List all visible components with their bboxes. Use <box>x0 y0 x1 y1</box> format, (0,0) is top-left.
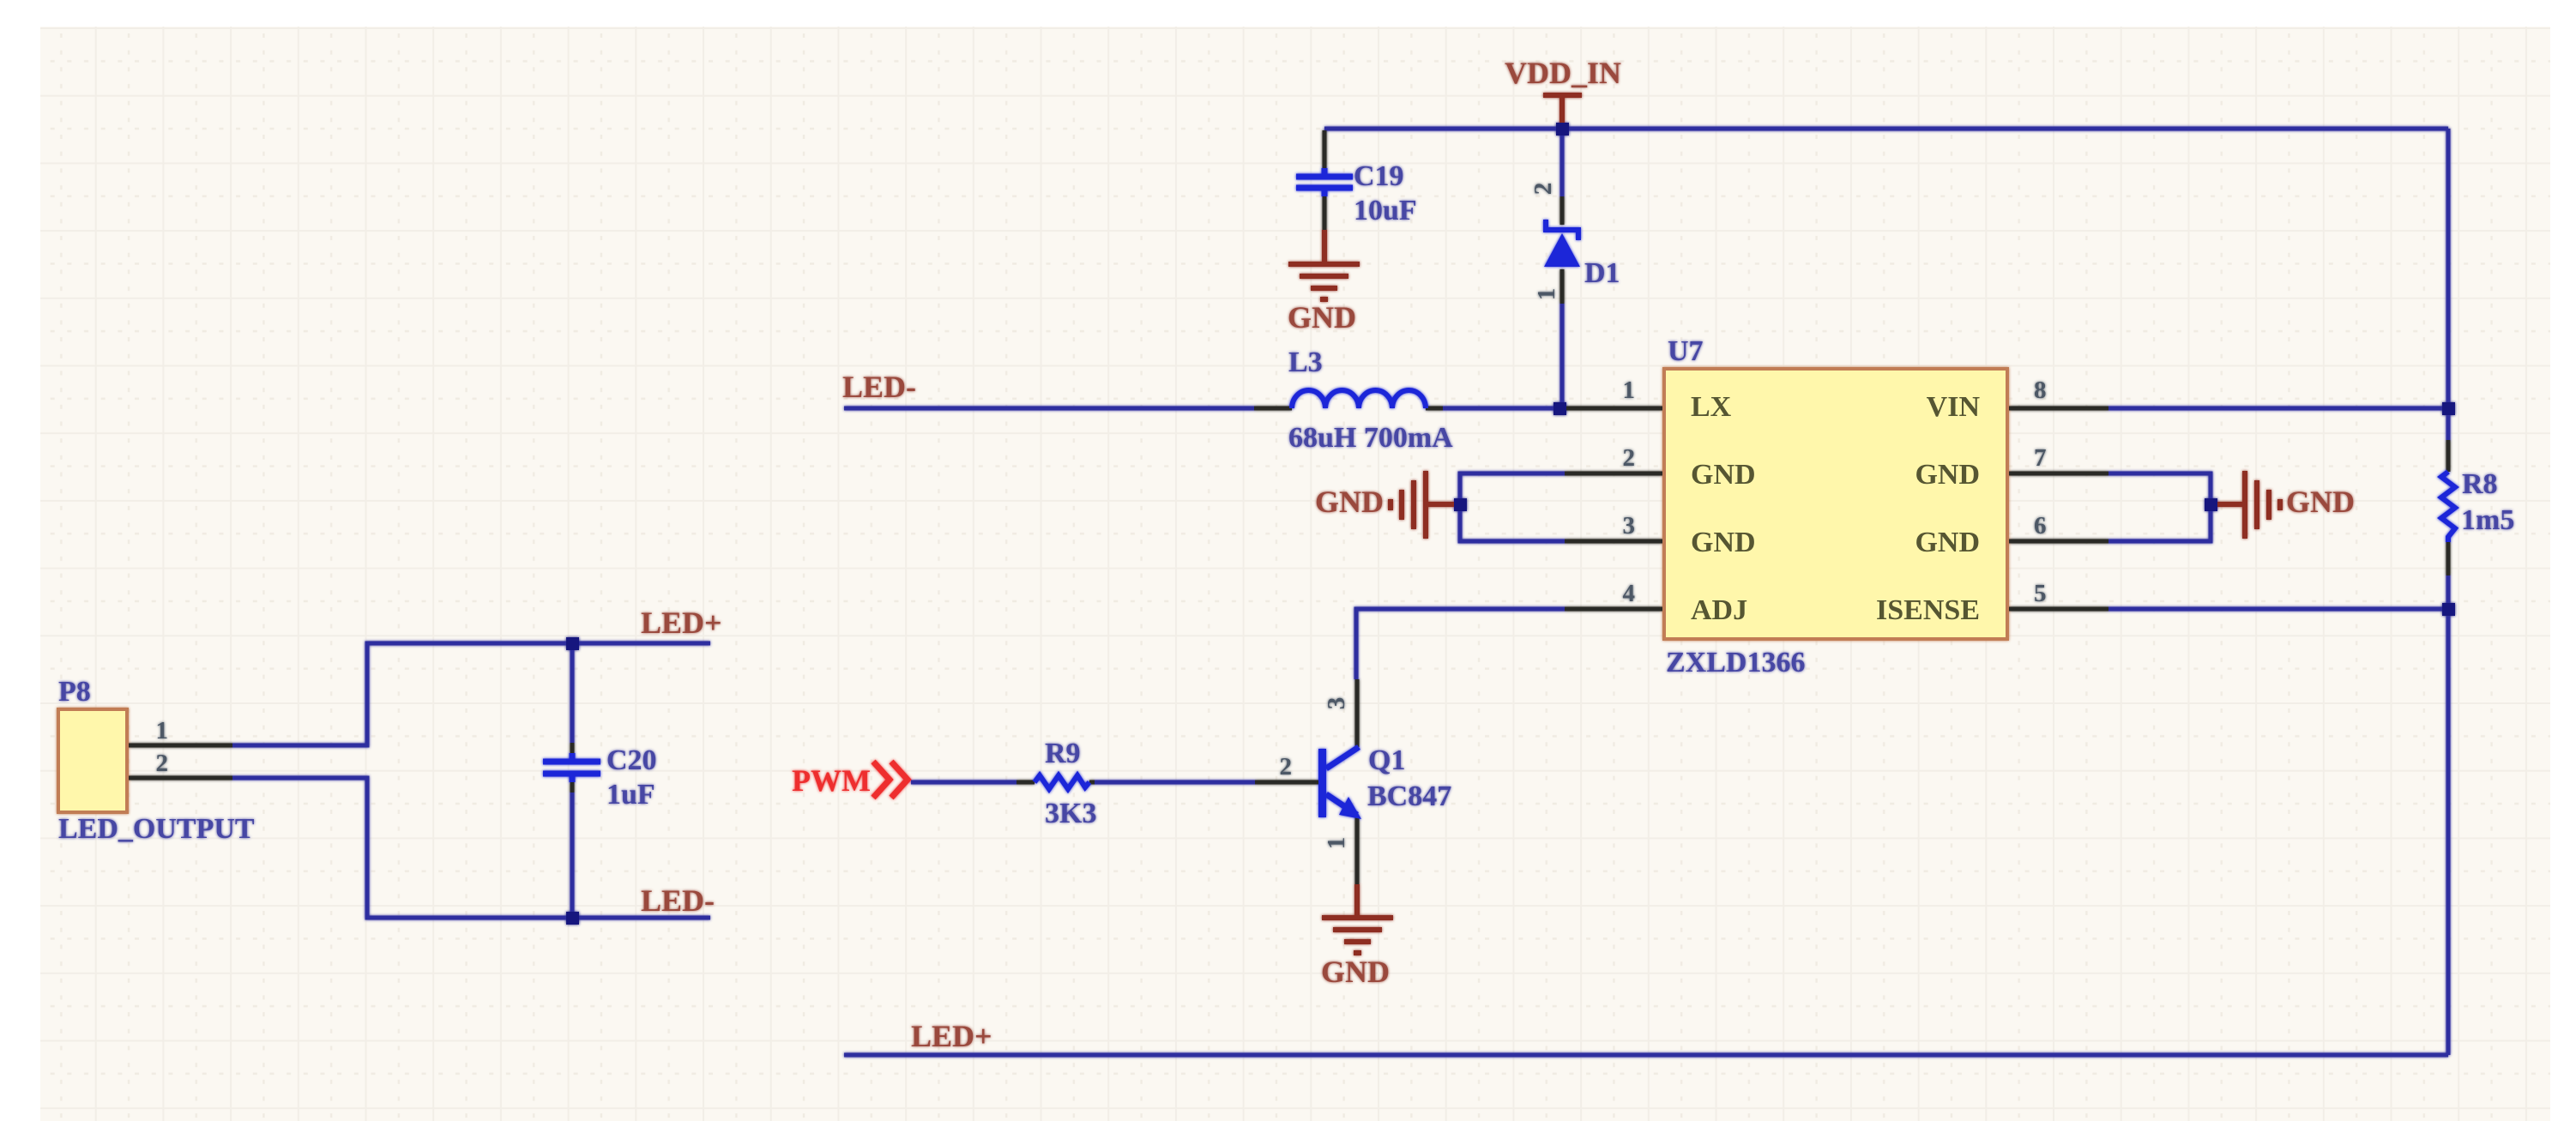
svg-text:3: 3 <box>1323 697 1350 710</box>
svg-text:U7: U7 <box>1668 335 1704 367</box>
svg-text:LED+: LED+ <box>641 606 722 640</box>
svg-text:10uF: 10uF <box>1354 195 1417 226</box>
svg-text:4: 4 <box>1623 580 1636 607</box>
svg-text:ADJ: ADJ <box>1691 594 1747 626</box>
svg-text:PWM: PWM <box>792 763 871 798</box>
svg-text:BC847: BC847 <box>1367 780 1451 812</box>
svg-text:D1: D1 <box>1584 257 1620 289</box>
svg-text:LX: LX <box>1691 391 1732 423</box>
svg-text:L3: L3 <box>1288 347 1323 378</box>
svg-text:C20: C20 <box>606 744 657 776</box>
svg-text:ZXLD1366: ZXLD1366 <box>1666 647 1805 678</box>
svg-text:3K3: 3K3 <box>1045 798 1096 829</box>
svg-text:GND: GND <box>1915 527 1980 558</box>
svg-text:1uF: 1uF <box>606 779 655 811</box>
svg-text:LED_OUTPUT: LED_OUTPUT <box>58 813 255 845</box>
svg-text:GND: GND <box>1288 300 1356 334</box>
svg-text:68uH 700mA: 68uH 700mA <box>1288 422 1453 454</box>
svg-text:2: 2 <box>156 750 169 777</box>
svg-text:Q1: Q1 <box>1368 744 1405 776</box>
svg-text:5: 5 <box>2034 580 2047 607</box>
svg-text:P8: P8 <box>58 676 91 708</box>
svg-text:ISENSE: ISENSE <box>1876 594 1980 626</box>
svg-text:VDD_IN: VDD_IN <box>1505 56 1621 90</box>
svg-text:R9: R9 <box>1045 738 1081 769</box>
svg-text:1: 1 <box>156 717 169 744</box>
svg-text:1: 1 <box>1533 288 1560 301</box>
svg-text:GND: GND <box>1691 527 1756 558</box>
svg-text:2: 2 <box>1280 753 1293 780</box>
svg-text:C19: C19 <box>1354 160 1404 192</box>
svg-text:R8: R8 <box>2462 468 2498 500</box>
svg-text:GND: GND <box>1915 459 1980 491</box>
svg-text:GND: GND <box>1691 459 1756 491</box>
svg-text:GND: GND <box>2286 485 2355 519</box>
svg-text:1: 1 <box>1623 377 1636 404</box>
svg-text:6: 6 <box>2034 512 2047 539</box>
svg-text:7: 7 <box>2034 444 2047 472</box>
svg-text:8: 8 <box>2034 377 2047 404</box>
svg-text:LED-: LED- <box>842 370 916 404</box>
svg-text:LED+: LED+ <box>911 1019 992 1053</box>
svg-text:VIN: VIN <box>1927 391 1981 423</box>
svg-text:2: 2 <box>1623 444 1636 472</box>
svg-text:3: 3 <box>1623 512 1636 539</box>
svg-text:2: 2 <box>1529 183 1557 196</box>
svg-text:LED-: LED- <box>641 883 715 918</box>
svg-text:GND: GND <box>1315 485 1384 519</box>
svg-text:1: 1 <box>1323 837 1350 850</box>
svg-text:GND: GND <box>1321 955 1390 989</box>
svg-text:1m5: 1m5 <box>2461 504 2514 536</box>
